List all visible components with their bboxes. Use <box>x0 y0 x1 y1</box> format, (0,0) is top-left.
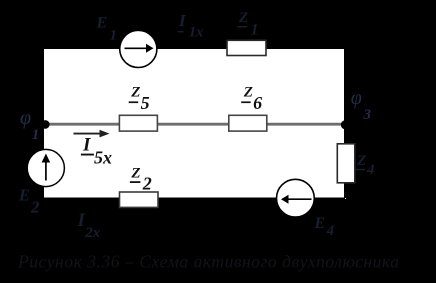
svg-text:φ: φ <box>351 87 362 109</box>
label Z1 (ghost text on black) <box>238 10 259 39</box>
svg-text:1: 1 <box>110 28 118 44</box>
label E4 (ghost text on black) <box>314 215 335 239</box>
impedance Z2 (box on bottom wire) <box>120 192 159 207</box>
label I2x (ghost text on black) <box>77 210 101 241</box>
svg-text:2: 2 <box>30 197 40 216</box>
label Z6 (black on white) <box>241 85 262 113</box>
label E1 (ghost text on black) <box>96 14 118 43</box>
svg-text:1x: 1x <box>189 24 204 40</box>
svg-text:E: E <box>314 215 326 232</box>
svg-text:I: I <box>77 210 86 231</box>
svg-text:φ: φ <box>20 107 31 129</box>
svg-text:6: 6 <box>253 93 262 113</box>
svg-text:3: 3 <box>363 107 372 123</box>
svg-text:E: E <box>96 14 108 31</box>
label I1x (ghost text on black) <box>177 11 203 41</box>
svg-text:I: I <box>82 134 91 155</box>
svg-text:Рисунок 3.36 – Схема активного: Рисунок 3.36 – Схема активного двухполюс… <box>17 252 400 272</box>
svg-text:E: E <box>18 185 30 204</box>
svg-text:4: 4 <box>326 223 334 239</box>
svg-text:1: 1 <box>251 22 259 39</box>
svg-text:Z: Z <box>243 85 253 101</box>
wire: middle horizontal from node phi1 to node phi3 <box>45 123 345 126</box>
voltage source E2 (circle with up arrow, on left wire) <box>27 149 64 186</box>
svg-text:2x: 2x <box>84 225 101 241</box>
node phi1 (junction dot) <box>41 120 50 129</box>
label phi3 (ghost text on black) <box>351 87 372 123</box>
impedance Z1 (box on top wire) <box>227 40 266 55</box>
svg-text:Z: Z <box>130 165 140 181</box>
svg-text:1: 1 <box>32 127 40 143</box>
svg-text:Z: Z <box>130 85 140 101</box>
svg-text:2: 2 <box>142 174 152 194</box>
current arrow I5x <box>74 130 110 138</box>
current source E1 (circle with right arrow, on top wire) <box>120 30 157 67</box>
label Z4 (ghost text on black) <box>356 153 376 178</box>
label Z5 (black on white) <box>129 85 150 113</box>
wire: bottom side of loop (black on black) <box>43 198 345 200</box>
label phi1 (ghost text on black) <box>20 107 39 143</box>
wire: left side of loop (black on black) <box>42 48 44 198</box>
wire: top side of loop (black on black) <box>44 47 346 49</box>
current source E4 (circle with left arrow, on bottom wire) <box>277 179 315 217</box>
impedance Z4 (vertical box on right wire) <box>337 144 355 183</box>
label Z2 (black on white) <box>130 165 152 193</box>
svg-text:Z: Z <box>238 10 248 26</box>
node phi3 (junction dot) <box>341 120 350 129</box>
svg-text:5: 5 <box>141 93 150 113</box>
svg-text:Z: Z <box>356 153 366 169</box>
svg-text:I: I <box>178 11 187 30</box>
impedance Z5 (box on middle wire) <box>119 115 157 131</box>
svg-text:5x: 5x <box>94 147 112 167</box>
svg-text:4: 4 <box>366 162 375 178</box>
label I5x (black on white) <box>81 134 112 167</box>
impedance Z6 (box on middle wire) <box>229 115 267 131</box>
label E2 (ghost text on black) <box>18 185 40 216</box>
wire: right side of loop (black on black) <box>344 48 346 198</box>
circuit interior (white region bounded by outer wire loop) <box>44 49 346 199</box>
